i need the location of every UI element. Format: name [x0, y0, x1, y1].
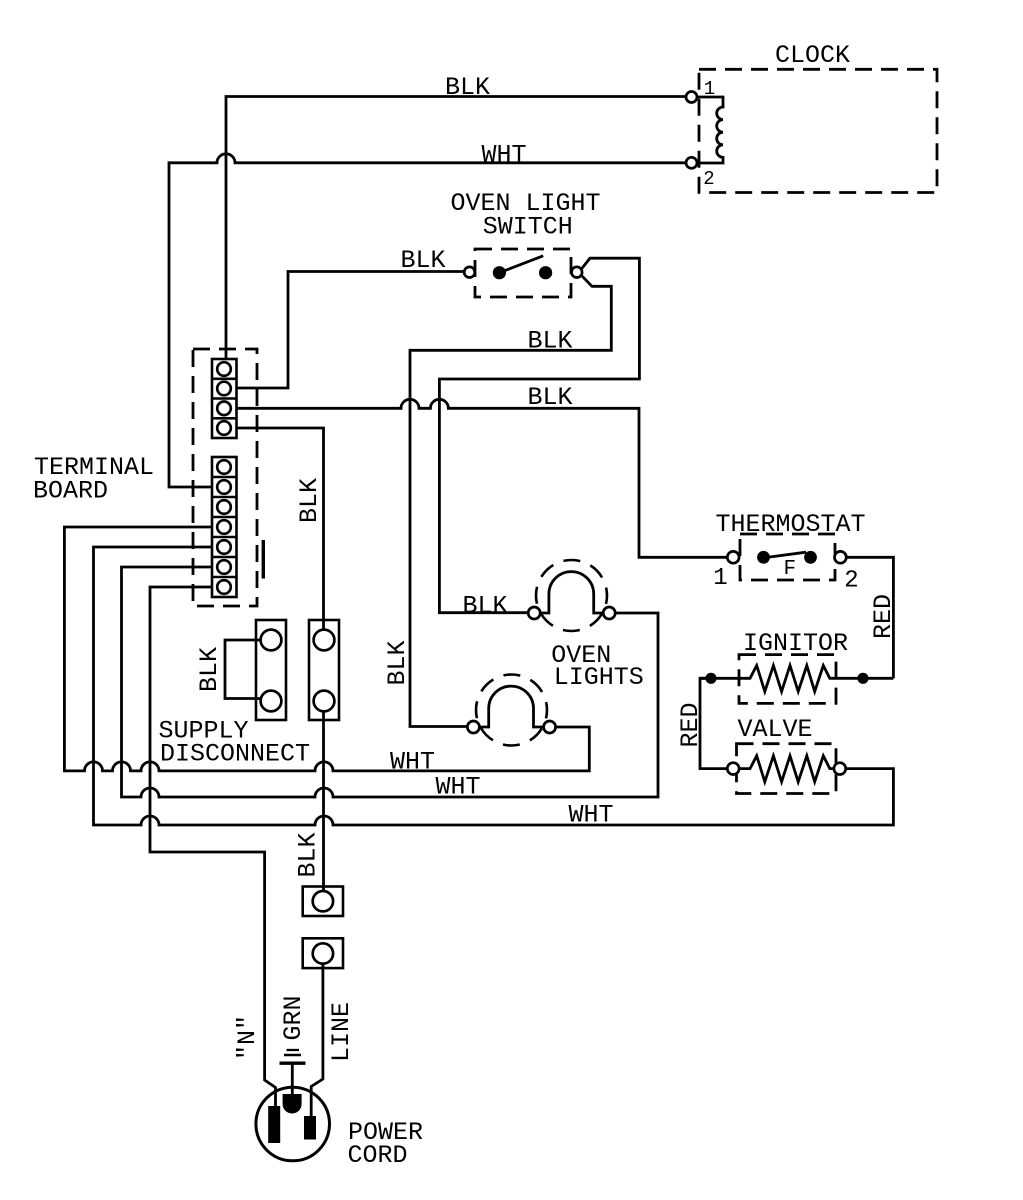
svg-text:IGNITOR: IGNITOR	[743, 629, 848, 658]
svg-text:WHT: WHT	[390, 748, 435, 777]
svg-text:DISCONNECT: DISCONNECT	[160, 740, 310, 769]
svg-text:1: 1	[704, 78, 715, 100]
svg-text:BLK: BLK	[383, 640, 412, 685]
svg-text:2: 2	[703, 168, 714, 190]
svg-text:RED: RED	[869, 594, 898, 639]
svg-text:WHT: WHT	[481, 141, 526, 170]
svg-text:LINE: LINE	[327, 1002, 356, 1062]
svg-text:BOARD: BOARD	[33, 477, 108, 506]
svg-text:BLK: BLK	[527, 327, 572, 356]
svg-text:WHT: WHT	[568, 801, 613, 830]
svg-text:BLK: BLK	[400, 246, 445, 275]
svg-text:"N": "N"	[233, 1015, 262, 1060]
svg-text:BLK: BLK	[294, 832, 323, 877]
svg-text:THERMOSTAT: THERMOSTAT	[715, 510, 865, 539]
svg-text:CORD: CORD	[347, 1141, 407, 1170]
svg-text:WHT: WHT	[435, 773, 480, 802]
svg-text:BLK: BLK	[195, 647, 224, 692]
svg-text:RED: RED	[676, 702, 705, 747]
svg-text:1: 1	[713, 565, 727, 592]
svg-text:BLK: BLK	[527, 383, 572, 412]
svg-text:BLK: BLK	[462, 592, 507, 621]
svg-text:2: 2	[844, 568, 858, 595]
svg-text:CLOCK: CLOCK	[775, 41, 850, 70]
svg-text:SWITCH: SWITCH	[483, 213, 573, 242]
svg-text:BLK: BLK	[295, 478, 324, 523]
svg-text:BLK: BLK	[445, 73, 490, 102]
svg-text:F: F	[783, 558, 796, 581]
svg-text:LIGHTS: LIGHTS	[554, 663, 644, 692]
svg-text:VALVE: VALVE	[737, 715, 812, 744]
svg-text:GRN: GRN	[279, 995, 308, 1040]
